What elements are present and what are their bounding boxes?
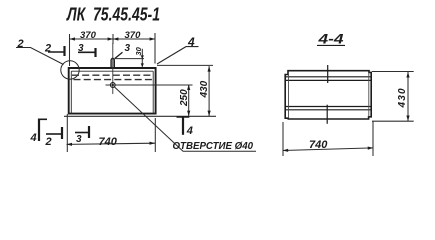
leader to hole note: [114, 87, 256, 152]
right view outline: [285, 71, 371, 119]
dimension 430 right view: [372, 72, 414, 122]
left view outer rectangle: [69, 68, 156, 114]
label 3 with leader to loop: [115, 52, 123, 58]
small dimension 30 for loop: [115, 49, 145, 67]
svg-text:3: 3: [125, 43, 131, 54]
svg-text:740: 740: [99, 136, 118, 148]
centre line through loop and hole: [112, 43, 114, 94]
section marker 4 bottom left: [38, 119, 47, 142]
svg-text:370: 370: [80, 30, 97, 41]
left view inner offset lines: [71, 71, 153, 113]
dimension 370 right: [125, 30, 142, 41]
svg-text:430: 430: [397, 87, 408, 108]
underline of 4-4: [317, 44, 345, 46]
svg-text:ЛК 75.45.45-1: ЛК 75.45.45-1: [65, 5, 160, 25]
svg-text:4: 4: [187, 35, 195, 49]
right view bottom tick: [326, 105, 328, 124]
note ОТВЕРСТИЕ Ø40: [173, 141, 254, 152]
right view bottom band lines: [285, 107, 371, 110]
title ЛК 75.45.45-1: [65, 5, 160, 25]
section marker 3 top: [78, 48, 96, 57]
svg-text:250: 250: [179, 89, 190, 107]
dimension 370 left: [70, 33, 156, 66]
svg-text:430: 430: [199, 80, 210, 98]
section marker 2 top: [48, 46, 65, 56]
svg-text:2: 2: [45, 136, 52, 148]
svg-text:4: 4: [186, 125, 193, 137]
hole centre dot: [112, 84, 114, 86]
svg-text:ОТВЕРСТИЕ Ø40: ОТВЕРСТИЕ Ø40: [173, 141, 254, 152]
svg-text:740: 740: [309, 139, 328, 151]
svg-text:4-4: 4-4: [317, 32, 344, 47]
hidden dashed line lower: [74, 79, 154, 81]
hidden dashed line upper: [72, 74, 153, 76]
section title 4-4: [317, 32, 344, 47]
section marker 2 bottom: [46, 127, 62, 139]
dimension 430 left view: [64, 65, 216, 116]
leader label 2: [16, 48, 64, 65]
svg-text:3: 3: [78, 43, 84, 54]
dimension 740 right view: [283, 121, 374, 156]
label 4 top right: [157, 47, 199, 64]
right view top tick: [327, 65, 329, 83]
hole circle: [110, 83, 115, 88]
right view top band lines: [285, 77, 371, 81]
section marker 3 bottom: [75, 126, 89, 138]
dimension 250: [106, 85, 193, 117]
detail circle node 2: [61, 61, 79, 79]
section marker 4 bottom right: [177, 117, 190, 135]
svg-text:2: 2: [44, 43, 51, 55]
svg-text:370: 370: [125, 30, 142, 41]
dimension 740 left view: [67, 114, 156, 152]
svg-text:30: 30: [134, 46, 143, 55]
svg-text:3: 3: [76, 134, 82, 145]
svg-text:2: 2: [17, 38, 24, 50]
svg-text:4: 4: [30, 132, 37, 144]
lifting loop on top edge: [111, 58, 114, 68]
right view inner verticals: [289, 72, 369, 118]
